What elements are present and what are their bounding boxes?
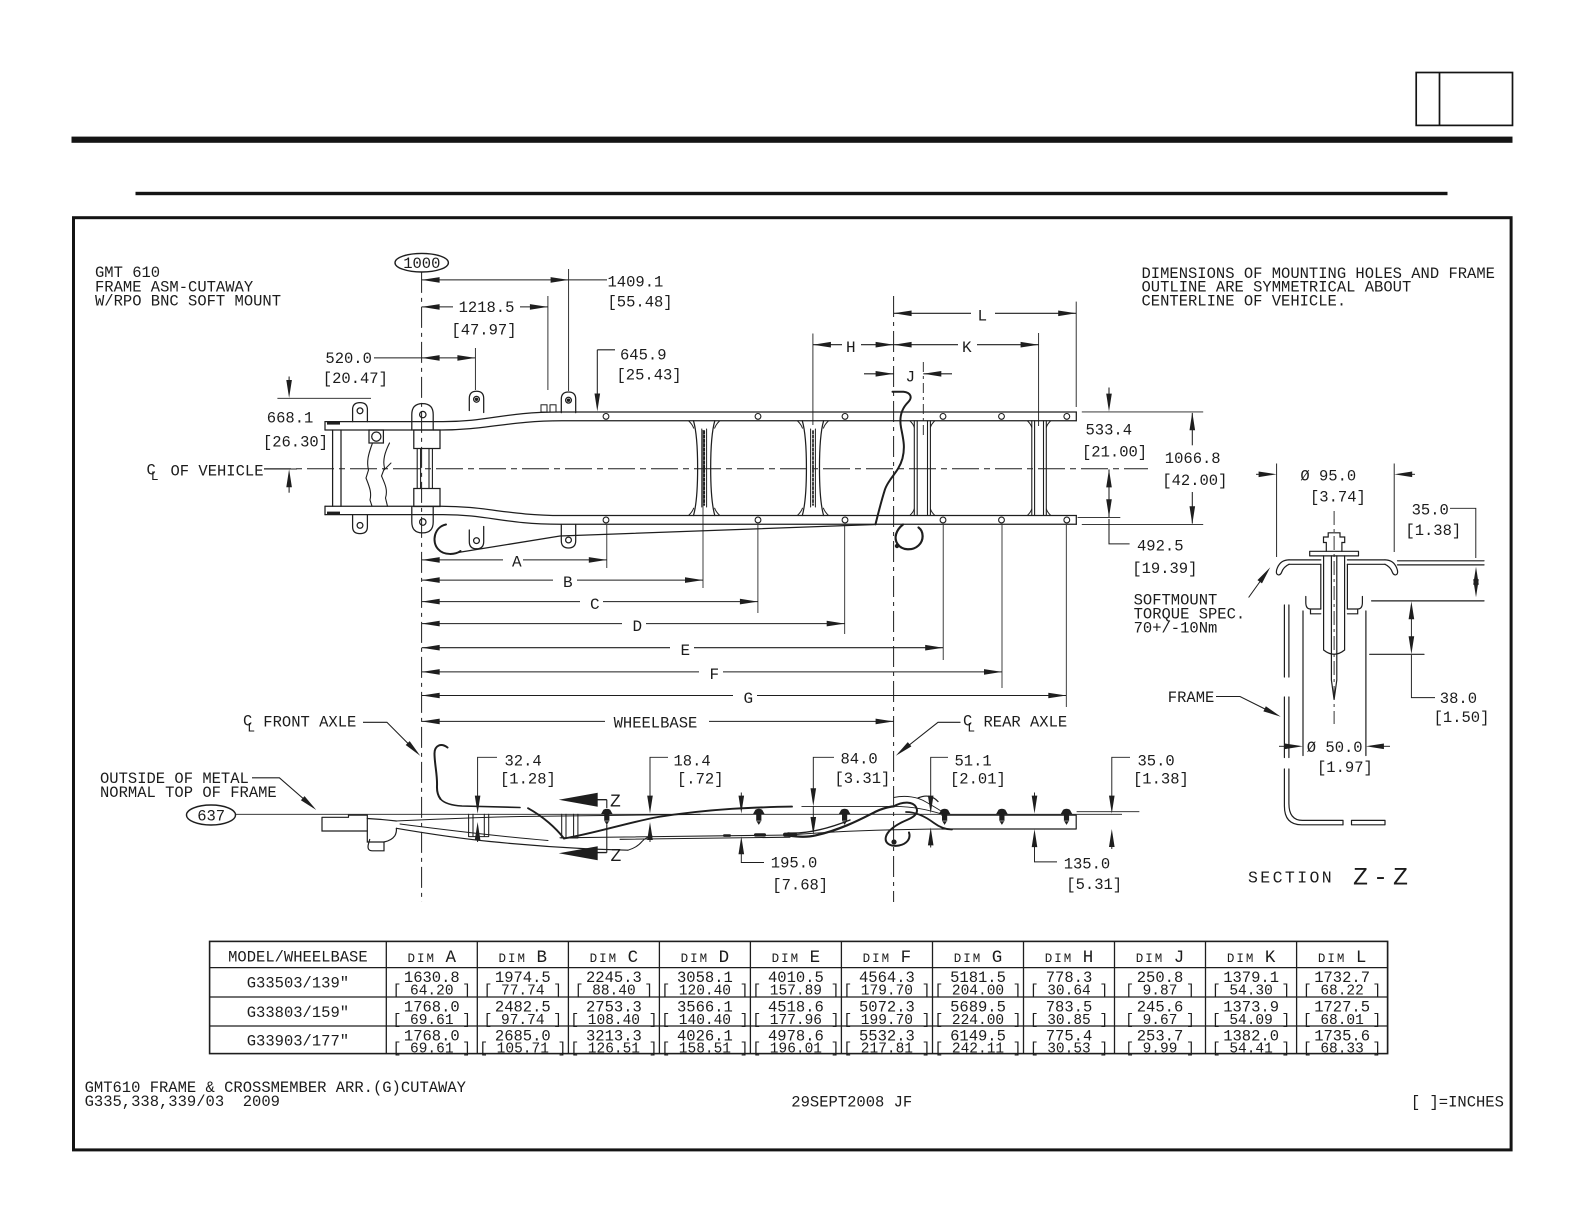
svg-text:1000: 1000	[403, 255, 440, 273]
frame web segments	[1284, 605, 1289, 677]
svg-text:29SEPT2008 JF: 29SEPT2008 JF	[791, 1094, 912, 1112]
svg-text:L: L	[978, 308, 988, 326]
rear sill top line	[802, 805, 894, 807]
svg-text:[3.31]: [3.31]	[835, 770, 891, 788]
dim 18.4	[650, 757, 668, 801]
crossmember 4 (x~922)	[914, 421, 930, 516]
front crossmember	[333, 430, 341, 506]
dim 492.5 leader elbow	[1109, 519, 1130, 544]
secondary rule	[136, 192, 1448, 195]
svg-text:WHEELBASE: WHEELBASE	[614, 714, 698, 732]
top rail inner edge	[325, 421, 1076, 430]
dim J	[864, 373, 894, 375]
dim 1409.1	[422, 279, 607, 281]
dim 32.4	[478, 757, 497, 801]
dim 520.0	[374, 357, 475, 359]
svg-text:135.0: 135.0	[1064, 856, 1111, 874]
svg-text:[5.31]: [5.31]	[1066, 876, 1122, 894]
svg-text:[ 30.53 ]: [ 30.53 ]	[1030, 1041, 1108, 1057]
svg-text:Ø 50.0: Ø 50.0	[1307, 739, 1363, 757]
dim B	[422, 579, 553, 581]
svg-text:[ 88.40 ]: [ 88.40 ]	[575, 984, 653, 1000]
dim 645.9 leader	[597, 349, 615, 351]
svg-text:[ 9.99 ]: [ 9.99 ]	[1125, 1041, 1195, 1057]
hat plate	[1289, 560, 1385, 564]
rail web inner line	[400, 824, 548, 841]
svg-text:G: G	[744, 690, 754, 708]
svg-text:1218.5: 1218.5	[459, 299, 515, 317]
top extension line	[1082, 411, 1203, 413]
brake cable run (plan)	[458, 525, 876, 553]
svg-text:[ 69.61 ]: [ 69.61 ]	[393, 1041, 471, 1057]
svg-text:[19.39]: [19.39]	[1132, 560, 1197, 578]
svg-text:G33503/139": G33503/139"	[247, 975, 349, 993]
svg-text:NORMAL TOP OF FRAME: NORMAL TOP OF FRAME	[100, 784, 277, 802]
svg-text:[ 217.81 ]: [ 217.81 ]	[843, 1041, 930, 1057]
svg-text:[ 126.51 ]: [ 126.51 ]	[570, 1041, 657, 1057]
svg-text:[ 120.40 ]: [ 120.40 ]	[661, 984, 748, 1000]
dia 50 tails	[1279, 745, 1288, 747]
svg-text:[1.38]: [1.38]	[1405, 522, 1461, 540]
dia 95 extension lines	[1276, 464, 1278, 558]
svg-text:[21.00]: [21.00]	[1082, 444, 1147, 462]
svg-text:[42.00]: [42.00]	[1162, 472, 1227, 490]
footer texts	[85, 1079, 1504, 1112]
front axle centerline	[421, 272, 423, 902]
svg-text:1066.8: 1066.8	[1165, 450, 1221, 468]
crossmember end flares	[689, 421, 1051, 516]
svg-text:[ 204.00 ]: [ 204.00 ]	[934, 984, 1021, 1000]
svg-text:[ 9.87 ]: [ 9.87 ]	[1125, 984, 1195, 1000]
rail top edge tapering to line	[396, 814, 700, 821]
rail end caps	[325, 412, 1076, 524]
shock zigzag	[366, 443, 373, 506]
svg-text:Z: Z	[610, 793, 621, 813]
svg-text:G335,338,339/03 2009: G335,338,339/03 2009	[85, 1093, 280, 1111]
svg-text:645.9: 645.9	[620, 347, 667, 365]
cup feet hooks	[1306, 597, 1321, 614]
dim L	[894, 312, 971, 314]
front spring hanger bracket	[469, 814, 489, 836]
svg-text:[ 179.70 ]: [ 179.70 ]	[843, 984, 930, 1000]
svg-text:[ 242.11 ]: [ 242.11 ]	[934, 1041, 1021, 1057]
svg-text:[ 54.41 ]: [ 54.41 ]	[1212, 1041, 1290, 1057]
hanger lower block	[414, 489, 440, 507]
bottom rail inner edge	[325, 506, 1076, 515]
svg-text:195.0: 195.0	[771, 854, 818, 872]
front tow tab bottom	[353, 515, 368, 534]
svg-text:[ 30.64 ]: [ 30.64 ]	[1030, 984, 1108, 1000]
svg-text:W/RPO BNC SOFT MOUNT: W/RPO BNC SOFT MOUNT	[95, 293, 281, 311]
dim E	[422, 647, 670, 649]
svg-text:L: L	[967, 720, 975, 735]
dim A	[422, 559, 503, 561]
dim 1066.8	[1191, 413, 1193, 445]
svg-text:84.0: 84.0	[841, 751, 878, 769]
svg-text:520.0: 520.0	[325, 350, 372, 368]
svg-text:G33803/159": G33803/159"	[247, 1004, 349, 1022]
svg-text:[47.97]: [47.97]	[451, 322, 516, 340]
dim F	[422, 671, 699, 673]
svg-text:[55.48]: [55.48]	[608, 294, 673, 312]
top of frame reference line	[236, 813, 1122, 815]
35.0 leader	[1450, 508, 1476, 558]
vehicle centerline	[264, 468, 1148, 470]
lower bushing tube	[1303, 611, 1366, 756]
svg-text:L: L	[247, 720, 255, 735]
svg-text:A: A	[512, 554, 522, 572]
svg-text:[20.47]: [20.47]	[323, 370, 388, 388]
svg-text:[ 54.30 ]: [ 54.30 ]	[1212, 984, 1290, 1000]
svg-text:70+/-10Nm: 70+/-10Nm	[1134, 620, 1218, 638]
svg-text:SECTION: SECTION	[1248, 868, 1334, 887]
dim 668.1	[288, 377, 290, 391]
spring hanger bracket 2 (side)	[562, 814, 578, 838]
svg-text:Z: Z	[611, 847, 622, 867]
cab mount tab 1409 bottom	[561, 525, 575, 549]
svg-text:[ ]=INCHES: [ ]=INCHES	[1411, 1094, 1504, 1112]
dim D	[422, 623, 622, 625]
front spring hanger top lobe	[412, 404, 433, 430]
svg-text:CENTERLINE OF VEHICLE.: CENTERLINE OF VEHICLE.	[1142, 293, 1347, 311]
cab mount tab 520 bottom	[469, 527, 483, 549]
brake cable front hook (plan)	[435, 525, 461, 554]
svg-text:J: J	[906, 369, 916, 387]
cup walls	[1321, 564, 1348, 609]
svg-text:OF VEHICLE: OF VEHICLE	[171, 463, 264, 481]
dim 195.0	[740, 793, 742, 800]
crossmember 3 (x~813)	[802, 421, 823, 516]
svg-text:D: D	[633, 618, 643, 636]
svg-text:[ 68.33 ]: [ 68.33 ]	[1303, 1041, 1381, 1057]
shackle links	[417, 449, 432, 489]
bottom extension line	[1082, 523, 1203, 525]
inner sleeve	[1324, 556, 1345, 654]
svg-text:Ø 95.0: Ø 95.0	[1300, 468, 1356, 486]
38.0 leader	[1410, 614, 1412, 641]
svg-text:18.4: 18.4	[674, 752, 711, 770]
svg-text:[3.74]: [3.74]	[1310, 489, 1366, 507]
brake cable rear S (plan)	[876, 392, 911, 525]
svg-text:1409.1: 1409.1	[608, 274, 664, 292]
svg-text:[2.01]: [2.01]	[950, 770, 1006, 788]
svg-text:Z-Z: Z-Z	[1353, 864, 1413, 893]
dim 51.1	[931, 757, 948, 801]
wheelbase dim	[422, 720, 605, 722]
svg-text:[ 196.01 ]: [ 196.01 ]	[752, 1041, 839, 1057]
svg-text:E: E	[681, 642, 691, 660]
cab mount tab 520 top	[469, 391, 483, 412]
crossmember 5 (x~1039)	[1032, 421, 1047, 516]
chain extension lines	[607, 430, 1067, 707]
dim 35.0	[1112, 757, 1130, 801]
svg-text:REAR AXLE: REAR AXLE	[984, 714, 1068, 732]
svg-text:[1.50]: [1.50]	[1434, 709, 1490, 727]
left lip	[1276, 560, 1289, 575]
svg-text:K: K	[962, 339, 972, 357]
brake cable front hook (side)	[435, 745, 448, 799]
front spring hanger bottom lobe	[412, 507, 433, 533]
svg-text:[7.68]: [7.68]	[772, 877, 828, 895]
main drawing border	[74, 218, 1512, 1150]
crossmember 2 (x~704)	[694, 421, 715, 516]
balloon 1000	[395, 253, 448, 272]
svg-text:[ 77.74 ]: [ 77.74 ]	[484, 984, 562, 1000]
dim 492.5 arrows span	[1108, 469, 1110, 517]
brake cable rise over rail (side)	[564, 807, 792, 839]
rear rail band	[942, 815, 1076, 829]
svg-text:[ 158.51 ]: [ 158.51 ]	[661, 1041, 748, 1057]
svg-text:[ 64.20 ]: [ 64.20 ]	[393, 984, 471, 1000]
hanger upper block	[414, 430, 440, 449]
dim G	[422, 695, 733, 697]
svg-text:FRAME: FRAME	[1168, 689, 1215, 707]
front hitch bracket	[322, 815, 367, 831]
brake cable rear J hook (plan)	[896, 525, 923, 550]
dim H K	[813, 344, 842, 346]
svg-text:FRONT AXLE: FRONT AXLE	[263, 714, 356, 732]
rail bottom web line (rear shallow)	[560, 835, 790, 839]
frame bolts (side view)	[601, 809, 1073, 825]
balloon 637	[187, 805, 236, 825]
dim C	[422, 601, 580, 603]
title block texts	[95, 264, 1495, 311]
svg-text:[.72]: [.72]	[677, 770, 724, 788]
section cut Z-Z	[590, 800, 607, 853]
cab mount tab 1409 top	[561, 392, 575, 413]
svg-text:[1.97]: [1.97]	[1317, 759, 1373, 777]
dim 533.4 upper leader	[1108, 388, 1110, 404]
weld tabs on rail curve	[541, 405, 547, 412]
svg-text:B: B	[563, 574, 573, 592]
svg-text:H: H	[846, 339, 856, 357]
svg-text:51.1: 51.1	[955, 752, 992, 770]
bottom rail outer edge	[325, 515, 1076, 525]
svg-text:L: L	[151, 469, 159, 484]
bolt shaft and point	[1331, 556, 1336, 700]
svg-text:G33903/177": G33903/177"	[247, 1033, 349, 1051]
shock bracket	[369, 430, 383, 443]
top-right revision box	[1416, 73, 1512, 126]
svg-text:492.5: 492.5	[1137, 538, 1184, 556]
right lip	[1385, 560, 1398, 575]
svg-text:[26.30]: [26.30]	[263, 434, 328, 452]
svg-text:38.0: 38.0	[1440, 690, 1477, 708]
svg-text:[1.38]: [1.38]	[1133, 770, 1189, 788]
rail bottom edge (deep front section)	[396, 828, 628, 850]
dim 1218.5	[422, 306, 453, 308]
top title bar	[72, 137, 1513, 143]
svg-text:[ 157.89 ]: [ 157.89 ]	[752, 984, 839, 1000]
front tow tab top	[353, 403, 368, 422]
rear cable tangle	[886, 803, 917, 846]
softmount washer	[1310, 551, 1359, 556]
top rail outer edge	[325, 412, 1076, 422]
svg-text:668.1: 668.1	[267, 410, 314, 428]
bolt head	[1324, 533, 1345, 552]
svg-text:[ 68.22 ]: [ 68.22 ]	[1303, 984, 1381, 1000]
dim 84.0	[813, 757, 834, 793]
mount centerline	[1333, 511, 1335, 724]
svg-text:[25.43]: [25.43]	[617, 366, 682, 384]
svg-text:[1.28]: [1.28]	[500, 770, 556, 788]
J extension dashed	[922, 362, 924, 438]
rear cable bundle rising	[788, 806, 894, 836]
svg-text:C: C	[590, 596, 600, 614]
flange lines right	[1398, 560, 1485, 562]
svg-text:[ 105.71 ]: [ 105.71 ]	[479, 1041, 566, 1057]
svg-text:F: F	[710, 666, 720, 684]
svg-text:32.4: 32.4	[505, 752, 542, 770]
rear axle centerline	[893, 296, 895, 902]
dim 135.0	[1034, 793, 1036, 800]
svg-text:637: 637	[197, 807, 225, 825]
weld marks front crossmember	[327, 422, 340, 515]
svg-text:35.0: 35.0	[1412, 502, 1449, 520]
rail holes top	[603, 414, 1070, 523]
svg-text:35.0: 35.0	[1138, 752, 1175, 770]
svg-text:MODEL/WHEELBASE: MODEL/WHEELBASE	[228, 949, 368, 967]
svg-text:533.4: 533.4	[1086, 421, 1133, 439]
